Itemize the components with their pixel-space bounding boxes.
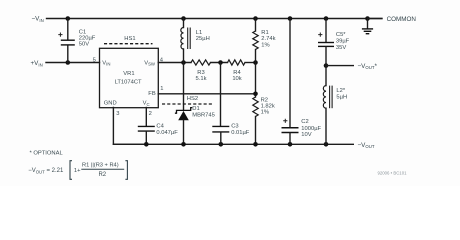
wire GND pin 3 to bottom rail	[113, 108, 146, 145]
svg-text:FB: FB	[148, 91, 156, 97]
svg-text:C3: C3	[231, 124, 238, 130]
svg-text:1%: 1%	[261, 110, 269, 116]
svg-text:35V: 35V	[336, 45, 346, 51]
inductor L1 25uH	[181, 19, 210, 63]
junction dot common/ground node	[365, 16, 370, 21]
heatsink HS2 dashed line	[162, 96, 212, 104]
junction dot R2 bottom	[253, 142, 258, 147]
svg-text:39µF: 39µF	[336, 39, 350, 45]
bracket right	[125, 161, 127, 180]
junction dot R4/R1/R2 node	[253, 60, 258, 65]
svg-text:1%: 1%	[261, 42, 269, 48]
svg-text:VC: VC	[143, 101, 150, 107]
wire top rail (-VIN / COMMON rail)	[47, 18, 383, 20]
svg-text:25µH: 25µH	[196, 36, 210, 42]
svg-text:R2: R2	[98, 172, 106, 178]
svg-text:R3: R3	[197, 70, 204, 76]
svg-text:3: 3	[116, 111, 119, 117]
junction dot C1 top	[66, 16, 71, 21]
capacitor C5 39uF 35V	[318, 19, 350, 66]
svg-text:* OPTIONAL: * OPTIONAL	[30, 151, 64, 157]
svg-text:−VOUT*: −VOUT*	[358, 63, 378, 70]
fraction bar	[81, 168, 124, 170]
anode triangle	[178, 111, 189, 120]
plus sign C2	[283, 119, 287, 123]
resistor R1 2.74k 1%	[253, 19, 276, 63]
junction dot C3 bottom	[219, 142, 224, 147]
junction dot R1 top	[253, 16, 258, 21]
svg-text:LT1074CT: LT1074CT	[115, 79, 142, 85]
svg-text:10V: 10V	[301, 132, 311, 138]
wire R3/R4 node down to C3	[220, 63, 222, 127]
svg-text:MBR745: MBR745	[192, 113, 215, 119]
svg-text:92006 • BC101: 92006 • BC101	[378, 170, 408, 175]
svg-text:1: 1	[160, 86, 163, 92]
svg-text:1000µF: 1000µF	[301, 126, 321, 132]
wire between R3 and R4	[211, 62, 228, 64]
junction dot C4 bottom	[144, 142, 149, 147]
resistor R3 5.1k	[191, 60, 211, 82]
svg-text:HS1: HS1	[124, 36, 135, 42]
svg-text:10k: 10k	[232, 76, 241, 82]
junction dot C5 bottom / L2 top	[324, 63, 329, 68]
ground symbol	[362, 19, 373, 34]
junction dot C2 top	[288, 16, 293, 21]
svg-text:5: 5	[93, 57, 96, 63]
junction dot R3/R4 node	[218, 60, 223, 65]
svg-text:HS2: HS2	[187, 96, 198, 102]
bracket left	[70, 161, 72, 180]
svg-text:C4: C4	[156, 124, 164, 130]
junction dot C1 bottom	[66, 60, 71, 65]
svg-text:−VOUT = 2.21: −VOUT = 2.21	[28, 168, 64, 174]
svg-text:VIN: VIN	[102, 60, 110, 66]
diode D1 MBR745 schottky	[175, 63, 215, 145]
op-amp U1 regulator VR1 LT1074CT box	[93, 48, 164, 117]
svg-text:VR1: VR1	[123, 71, 134, 77]
wire VSW rail from pin 4	[158, 62, 191, 64]
svg-text:5.1k: 5.1k	[196, 76, 207, 82]
inductor L2 5uH	[323, 66, 347, 145]
svg-text:+VIN: +VIN	[31, 60, 43, 67]
svg-text:R4: R4	[233, 70, 241, 76]
plus sign C1	[58, 33, 62, 37]
svg-text:50V: 50V	[79, 42, 89, 48]
svg-text:0.047µF: 0.047µF	[156, 130, 178, 136]
svg-text:2: 2	[149, 111, 152, 117]
svg-text:COMMON: COMMON	[387, 16, 417, 23]
svg-text:5µH: 5µH	[336, 94, 347, 100]
plus sign C5	[318, 33, 322, 37]
wire COMMON stub	[368, 18, 382, 20]
junction dot D1 bottom	[181, 142, 186, 147]
junction dot L1 bottom / VSW node	[181, 60, 186, 65]
junction dot L2 bottom	[324, 142, 329, 147]
svg-text:1+: 1+	[74, 168, 81, 174]
capacitor C1 220uF 50V	[58, 19, 96, 63]
svg-text:C5*: C5*	[336, 32, 346, 38]
wire +VIN input wire	[46, 62, 100, 64]
svg-text:C2: C2	[301, 119, 308, 125]
wire bottom -VOUT rail	[113, 143, 353, 145]
formula -VOUT = 2.21 [ 1 + R1||(R3+R4)/R2 ]	[28, 161, 127, 180]
junction dot FB / R1 / R2 node	[253, 92, 258, 97]
svg-text:D1: D1	[192, 106, 199, 112]
capacitor C3 0.01uF	[212, 124, 250, 145]
svg-text:GND: GND	[104, 101, 117, 107]
svg-text:R1: R1	[261, 30, 268, 36]
svg-text:−VOUT: −VOUT	[358, 142, 375, 149]
svg-text:0.01µF: 0.01µF	[231, 130, 250, 136]
heatsink HS1 dashed line	[104, 36, 153, 44]
wire R4 to R1/R2 node	[245, 62, 256, 64]
svg-text:R1 ||(R3 + R4): R1 ||(R3 + R4)	[82, 162, 119, 168]
svg-text:VSW: VSW	[144, 60, 156, 66]
junction dot L1 top	[181, 16, 186, 21]
junction dot C2 bottom	[288, 142, 293, 147]
svg-text:−VIN: −VIN	[32, 16, 44, 23]
junction dot C5 top	[324, 16, 329, 21]
svg-text:L1: L1	[196, 30, 202, 36]
capacitor C4 0.047uF	[138, 108, 178, 145]
svg-text:L2*: L2*	[336, 88, 345, 94]
schottky cathode bar	[175, 108, 192, 114]
wire FB pin 1 to R1/R2 node	[158, 93, 255, 95]
resistor R4 10k	[228, 60, 246, 82]
wire filtered output stub	[326, 65, 353, 67]
resistor R2 1.82k 1%	[253, 63, 275, 145]
svg-text:2.74k: 2.74k	[261, 36, 275, 42]
capacitor C2 1000uF 10V	[282, 19, 322, 145]
